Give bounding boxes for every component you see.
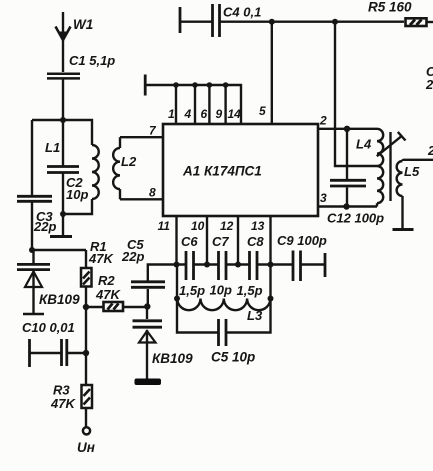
wire C1 to node A — [62, 78, 64, 120]
wire pin3 stub — [318, 205, 377, 207]
node pin12 bus junction — [235, 262, 241, 268]
wire left column down — [31, 120, 33, 250]
svg-text:2: 2 — [425, 77, 433, 92]
capacitor C2 — [47, 167, 79, 173]
node F junction (pin5 top) — [269, 19, 275, 25]
svg-text:47K: 47K — [95, 287, 121, 302]
svg-text:3: 3 — [320, 191, 327, 205]
svg-text:C1 5,1p: C1 5,1p — [69, 53, 115, 68]
wire pin12 stub — [237, 216, 239, 265]
svg-text:1,5p: 1,5p — [179, 283, 205, 298]
core line L4/L5 — [389, 132, 391, 201]
node pin6 junction — [207, 82, 213, 88]
svg-text:L2: L2 — [121, 154, 137, 169]
svg-text:8: 8 — [149, 186, 156, 200]
wire pin8 stub — [120, 198, 163, 200]
svg-text:L5: L5 — [404, 164, 420, 179]
svg-text:R2: R2 — [98, 273, 115, 288]
node B junction — [60, 211, 66, 217]
svg-text:10p: 10p — [210, 283, 232, 298]
svg-text:А1 К174ПС1: А1 К174ПС1 — [182, 164, 262, 179]
capacitor C4 terminal — [179, 7, 182, 33]
capacitor C1 — [47, 74, 80, 79]
svg-text:C6: C6 — [181, 234, 198, 249]
bus terminal (pins 1,4,6,9,14) — [144, 75, 147, 96]
node pin1 junction — [173, 82, 179, 88]
wire pin11 to L3 — [176, 265, 178, 299]
antenna W1 — [56, 12, 71, 72]
svg-text:C4 0,1: C4 0,1 — [223, 5, 261, 20]
svg-text:10p: 10p — [66, 187, 88, 202]
inductor L2 — [113, 137, 120, 199]
wire pin13 to L3 — [269, 265, 271, 299]
capacitor C5 22p — [131, 265, 177, 307]
capacitor C3 — [17, 196, 52, 201]
varicap VD2 KB109 — [133, 307, 163, 386]
wire pin13 stub — [269, 216, 271, 265]
capacitor C8 — [250, 251, 258, 280]
wire pin2 stub — [318, 128, 377, 130]
wire node A left — [32, 119, 63, 121]
svg-text:Uн: Uн — [77, 440, 95, 455]
svg-text:13: 13 — [251, 219, 265, 233]
svg-text:4: 4 — [184, 107, 192, 121]
node L3 left junction — [174, 296, 180, 302]
wire bottom bus — [177, 263, 293, 265]
capacitor C6 — [186, 251, 194, 280]
wire pin4 stub — [194, 85, 196, 124]
wire tap feed down — [335, 22, 377, 166]
varicap VD1 KB109 — [17, 250, 50, 314]
svg-text:47K: 47K — [50, 396, 76, 411]
svg-text:C5 10p: C5 10p — [211, 350, 255, 365]
wire C2 to node B — [62, 173, 64, 214]
svg-text:2: 2 — [319, 114, 327, 128]
svg-text:C10 0,01: C10 0,01 — [22, 320, 75, 335]
svg-text:W1: W1 — [73, 17, 93, 32]
wire pin10 stub — [206, 216, 208, 265]
wire pin11 stub — [175, 216, 177, 265]
pin labels 11 10 12 13 — [158, 219, 265, 233]
svg-text:9: 9 — [216, 107, 223, 121]
wire D to E to R3 — [85, 307, 87, 385]
node A junction — [60, 117, 66, 123]
wire bus — [145, 85, 241, 124]
svg-text:1: 1 — [168, 107, 175, 121]
trimmer arrow — [377, 132, 406, 156]
wire pin9 stub — [224, 85, 226, 124]
svg-text:1,5p: 1,5p — [237, 283, 263, 298]
svg-text:R5 160: R5 160 — [368, 0, 412, 15]
node pin11 bus junction — [174, 262, 180, 268]
svg-text:12: 12 — [220, 219, 234, 233]
ground under C2 — [50, 214, 72, 237]
wire node C to R1 — [32, 249, 86, 251]
node pin13 bus junction — [268, 262, 274, 268]
wire pin7 stub — [120, 136, 163, 138]
svg-text:10: 10 — [191, 219, 205, 233]
capacitor C5 10p loop — [177, 299, 271, 347]
terminal Uн — [83, 427, 90, 434]
wire pin6 stub — [208, 85, 210, 124]
wire pin5 stub — [271, 22, 273, 124]
capacitor C7 — [219, 251, 227, 280]
node C5/R2 junction — [144, 303, 150, 309]
svg-text:5: 5 — [259, 104, 266, 118]
resistor R5 — [406, 18, 433, 26]
resistor R2 — [86, 302, 147, 311]
wire to C4 — [180, 21, 212, 23]
node E junction (C10/R3) — [83, 350, 89, 356]
capacitor C9 — [293, 251, 325, 282]
node pin9 junction — [223, 82, 229, 88]
node G junction (tap feed) — [332, 19, 338, 25]
capacitor C12 — [330, 129, 366, 207]
svg-text:КВ109: КВ109 — [152, 351, 193, 366]
svg-text:6: 6 — [201, 107, 208, 121]
svg-text:C7: C7 — [212, 234, 229, 249]
inductor L5 — [393, 160, 433, 230]
svg-text:14: 14 — [228, 107, 242, 121]
node C12 bottom junction — [343, 203, 349, 209]
capacitor C10 — [30, 339, 87, 367]
svg-text:L1: L1 — [45, 140, 60, 155]
inductor L4 — [377, 129, 383, 207]
svg-text:11: 11 — [158, 219, 171, 233]
svg-text:2: 2 — [427, 143, 433, 158]
svg-text:C12 100p: C12 100p — [327, 211, 384, 226]
svg-text:L4: L4 — [356, 137, 372, 152]
svg-text:47K: 47K — [88, 251, 114, 266]
svg-text:C9 100p: C9 100p — [277, 233, 327, 248]
inductor L3 — [177, 299, 270, 311]
wire C4 to R5 — [220, 21, 405, 23]
wire A to C2 — [62, 120, 64, 166]
node C junction (left column) — [29, 247, 35, 253]
node C12 top junction — [344, 126, 350, 132]
inductor L1 — [63, 120, 99, 214]
op-amp U1 (IC A1 К174ПС1) — [163, 124, 318, 216]
pin labels 1 4 6 9 14 — [168, 107, 241, 121]
resistor R1 — [81, 250, 92, 307]
svg-text:КВ109: КВ109 — [39, 292, 80, 307]
node L3 right junction — [268, 296, 274, 302]
wire pin1 stub — [175, 85, 177, 124]
svg-text:22p: 22p — [121, 249, 144, 264]
cut label right edge top — [425, 64, 433, 92]
node pin4 junction — [192, 82, 198, 88]
value labels 1,5p 10p 1,5p — [179, 283, 263, 299]
node pin10 bus junction — [204, 262, 210, 268]
svg-text:C8: C8 — [247, 234, 264, 249]
svg-text:22p: 22p — [33, 219, 56, 234]
svg-text:L3: L3 — [247, 308, 263, 323]
capacitor C4 — [213, 4, 220, 37]
node D junction (R1/R2/R3) — [83, 304, 89, 310]
resistor R3 — [82, 385, 93, 428]
